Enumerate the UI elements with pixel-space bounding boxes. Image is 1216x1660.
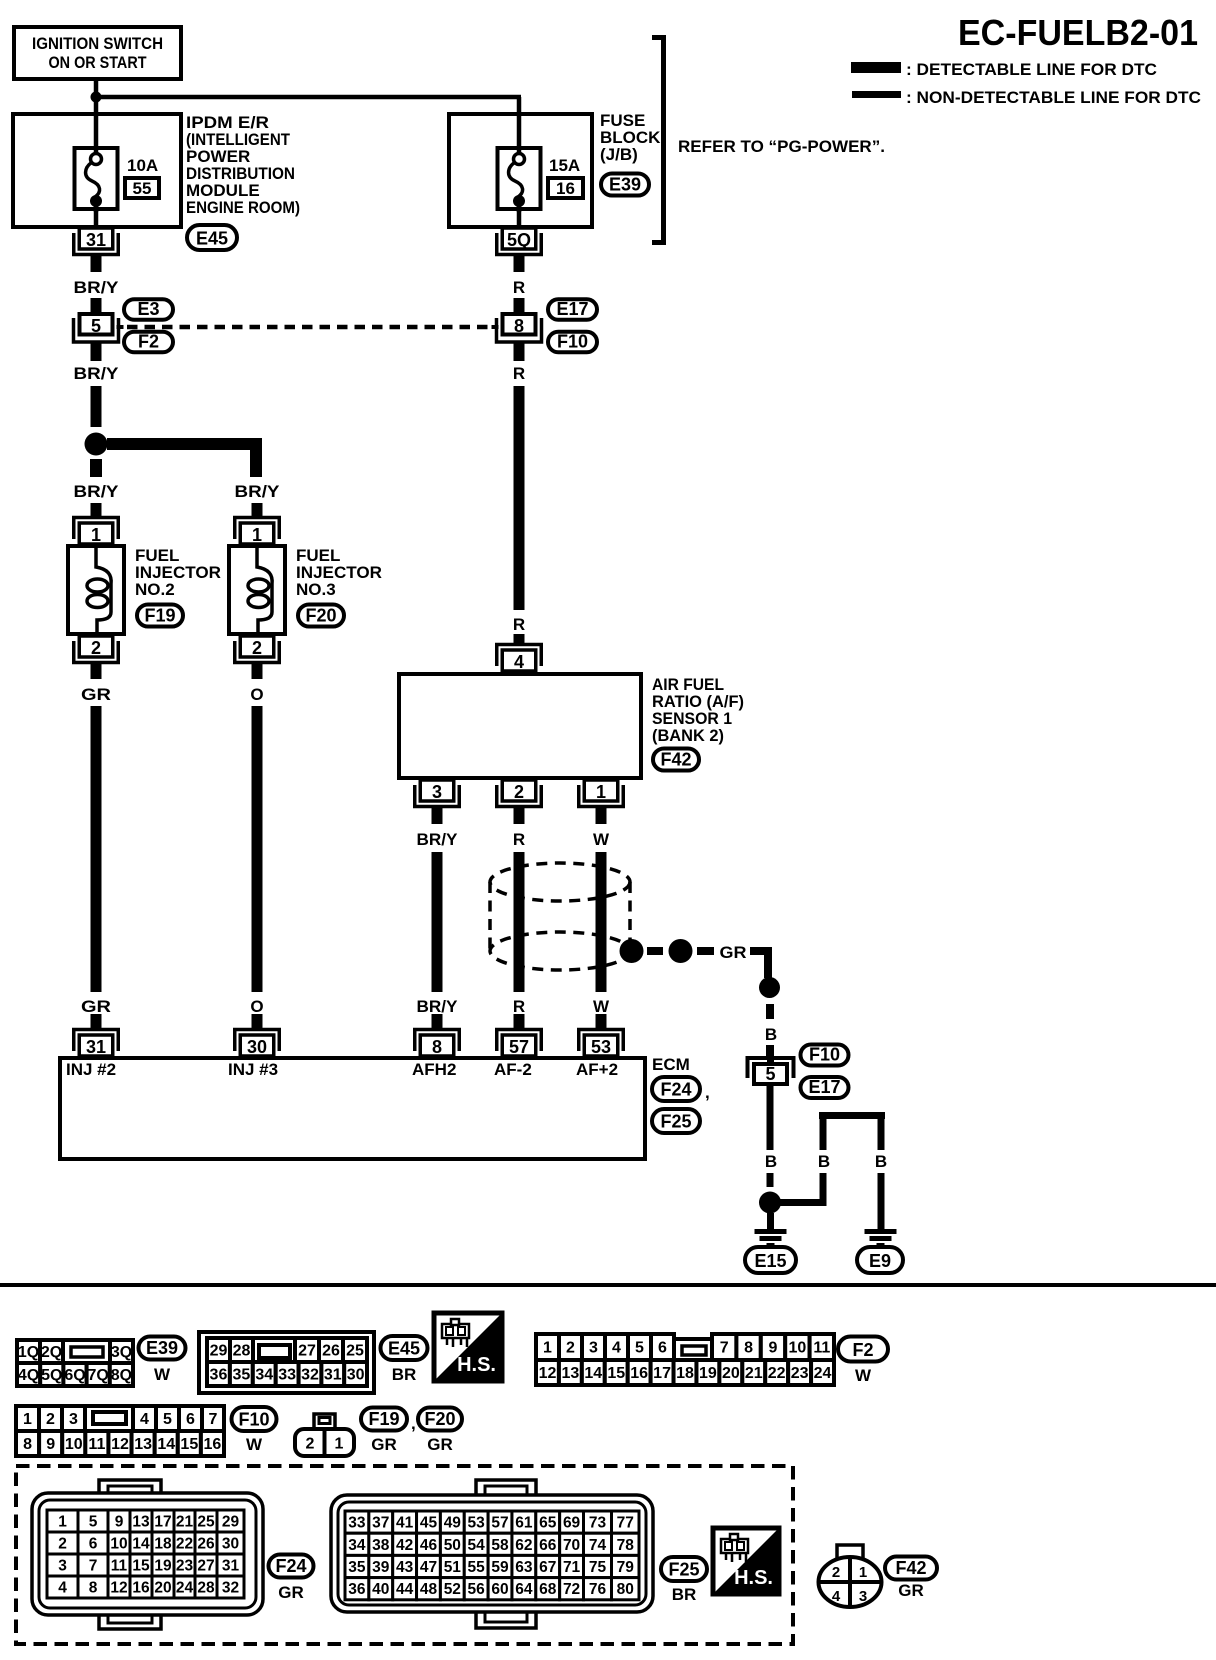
junction dot injector branch xyxy=(85,433,108,456)
wire junction to IPDM xyxy=(94,97,99,146)
wire BR/Y sensor to ECM xyxy=(432,852,443,992)
svg-text:6: 6 xyxy=(89,1536,98,1553)
svg-text:59: 59 xyxy=(491,1559,509,1576)
svg-text:30: 30 xyxy=(347,1367,365,1384)
svg-text:E15: E15 xyxy=(754,1251,786,1271)
svg-text:GR: GR xyxy=(720,943,747,962)
fuse 10A xyxy=(75,146,118,212)
pin 31 IPDM xyxy=(74,228,119,255)
connector ref E17 xyxy=(548,299,597,320)
label 55 box xyxy=(125,178,159,198)
connector ref F42 bottom xyxy=(885,1557,937,1580)
wire stub ECM pin 53 xyxy=(596,1014,607,1030)
svg-text:27: 27 xyxy=(298,1343,316,1360)
svg-text:B: B xyxy=(875,1152,887,1171)
connector ref F19 bottom xyxy=(361,1408,416,1434)
svg-text:BR/Y: BR/Y xyxy=(74,364,120,383)
svg-text:F20: F20 xyxy=(424,1409,455,1429)
svg-text:20: 20 xyxy=(722,1365,740,1382)
svg-text:1: 1 xyxy=(252,525,262,545)
ignition switch box xyxy=(14,27,181,79)
svg-text:BR/Y: BR/Y xyxy=(74,278,120,297)
ground symbol E9 xyxy=(865,1229,897,1248)
wire W sensor to ECM xyxy=(596,852,607,992)
connector E45 box xyxy=(199,1332,374,1393)
svg-text:30: 30 xyxy=(247,1037,267,1057)
svg-text:25: 25 xyxy=(346,1343,364,1360)
svg-text:F10: F10 xyxy=(809,1045,840,1065)
svg-text:3: 3 xyxy=(69,1411,78,1428)
wire pin5Q stub xyxy=(514,255,525,272)
svg-text:4: 4 xyxy=(514,652,524,672)
svg-text:F10: F10 xyxy=(557,332,588,352)
wire stub ECM pin 30 xyxy=(252,1014,263,1030)
svg-text:BR: BR xyxy=(392,1365,417,1384)
svg-text:NO.2: NO.2 xyxy=(135,580,175,599)
connector F24 grid xyxy=(47,1510,244,1598)
svg-text:2: 2 xyxy=(514,782,524,802)
svg-text:ECM: ECM xyxy=(652,1055,690,1074)
wire stub to sensor pin 4 xyxy=(514,634,525,645)
fuse 15A xyxy=(498,146,541,212)
svg-text:BR/Y: BR/Y xyxy=(417,830,459,849)
svg-text:13: 13 xyxy=(132,1514,150,1531)
svg-text:7: 7 xyxy=(89,1558,98,1575)
connector ref E39 bottom xyxy=(139,1337,186,1360)
svg-text:39: 39 xyxy=(372,1559,390,1576)
svg-text:8: 8 xyxy=(23,1436,32,1453)
svg-text:49: 49 xyxy=(444,1515,462,1532)
svg-text:5: 5 xyxy=(163,1411,172,1428)
svg-text:19: 19 xyxy=(699,1365,717,1382)
svg-text:15: 15 xyxy=(132,1558,150,1575)
svg-text:AF+2: AF+2 xyxy=(576,1060,618,1079)
svg-text:65: 65 xyxy=(539,1515,557,1532)
svg-text:69: 69 xyxy=(563,1515,581,1532)
svg-text:E45: E45 xyxy=(388,1338,420,1358)
svg-text:31: 31 xyxy=(86,230,106,250)
svg-text:22: 22 xyxy=(768,1365,786,1382)
pin 1 injector F20 xyxy=(235,518,280,546)
svg-text:31: 31 xyxy=(324,1367,342,1384)
svg-text:32: 32 xyxy=(222,1580,239,1597)
svg-text:9: 9 xyxy=(115,1514,124,1531)
svg-text:2: 2 xyxy=(46,1411,55,1428)
wire fuse to pin 31 xyxy=(94,211,99,227)
svg-text:31: 31 xyxy=(222,1558,240,1575)
svg-text:8: 8 xyxy=(744,1340,753,1357)
svg-text:: DETECTABLE LINE FOR DTC: : DETECTABLE LINE FOR DTC xyxy=(906,60,1157,79)
svg-text:F10: F10 xyxy=(238,1409,269,1429)
svg-text:15A: 15A xyxy=(549,156,580,175)
svg-text:2: 2 xyxy=(58,1536,67,1553)
connector ref F20 xyxy=(298,605,344,627)
connector ref F25 main xyxy=(652,1109,700,1133)
svg-text:ENGINE ROOM): ENGINE ROOM) xyxy=(186,198,300,217)
shield around sensor wires xyxy=(490,863,630,970)
svg-text:(J/B): (J/B) xyxy=(600,145,638,164)
svg-text:GR: GR xyxy=(278,1583,304,1602)
wire B middle leg to dot xyxy=(780,1173,827,1206)
svg-text:NO.3: NO.3 xyxy=(296,580,336,599)
connector F24 body xyxy=(32,1480,263,1629)
wire to junction xyxy=(91,386,102,427)
svg-text:27: 27 xyxy=(197,1558,214,1575)
svg-text:57: 57 xyxy=(509,1037,529,1057)
fuel injector FUEL INJECTOR NO.2 F19 xyxy=(68,546,124,634)
svg-text:7Q: 7Q xyxy=(88,1367,109,1384)
svg-text:36: 36 xyxy=(348,1581,366,1598)
wire below connector 5 xyxy=(91,343,102,361)
svg-text:51: 51 xyxy=(444,1559,462,1576)
svg-text:9: 9 xyxy=(46,1436,55,1453)
svg-text:2: 2 xyxy=(306,1436,315,1453)
connector 5 E3/F2 xyxy=(74,314,124,342)
legend non-detectable line xyxy=(852,88,1201,107)
wire B right leg to ground xyxy=(878,1173,885,1231)
svg-text:,: , xyxy=(705,1083,710,1102)
svg-text:36: 36 xyxy=(210,1367,228,1384)
svg-text:47: 47 xyxy=(420,1559,437,1576)
svg-text:23: 23 xyxy=(176,1558,194,1575)
label AIR FUEL RATIO sensor xyxy=(652,675,744,745)
svg-text:66: 66 xyxy=(539,1537,557,1554)
wire stub below injector F20 xyxy=(252,661,263,679)
connector F2 grid xyxy=(536,1334,674,1360)
svg-text:17: 17 xyxy=(154,1514,171,1531)
svg-text:44: 44 xyxy=(396,1581,414,1598)
svg-text:25: 25 xyxy=(197,1514,215,1531)
wire dash to GR label xyxy=(697,947,714,955)
ground symbol E15 xyxy=(755,1229,787,1248)
svg-text:F42: F42 xyxy=(660,749,691,769)
ECM box F24/F25 xyxy=(60,1058,645,1159)
svg-text:(BANK 2): (BANK 2) xyxy=(652,726,724,745)
svg-text:1: 1 xyxy=(23,1411,32,1428)
svg-text:76: 76 xyxy=(589,1581,607,1598)
svg-text:E39: E39 xyxy=(146,1338,178,1358)
wire injector F19 to ECM xyxy=(91,706,102,992)
connector F19/F20 2-pin xyxy=(295,1414,354,1456)
svg-text:BR/Y: BR/Y xyxy=(417,997,459,1016)
wire below connector 5 lower xyxy=(767,1086,774,1150)
svg-text:EC-FUELB2-01: EC-FUELB2-01 xyxy=(958,12,1198,53)
svg-text:F2: F2 xyxy=(138,332,159,352)
title EC-FUELB2-01 xyxy=(958,12,1198,53)
wire dash to ground dot xyxy=(767,1173,774,1187)
pin 30 ECM xyxy=(235,1030,280,1058)
svg-text:1: 1 xyxy=(859,1564,867,1581)
svg-text:4Q: 4Q xyxy=(18,1367,39,1384)
pin 4 A/F sensor xyxy=(497,645,542,673)
svg-text:80: 80 xyxy=(617,1581,634,1598)
pin 2 A/F sensor xyxy=(497,780,542,807)
svg-text:B: B xyxy=(765,1025,777,1044)
connector ref E15 xyxy=(745,1247,796,1273)
wire stub ECM pin 8 xyxy=(432,1014,443,1030)
wire stub to ground E15 xyxy=(767,1213,774,1229)
connector ref F2 bottom xyxy=(838,1337,888,1362)
svg-text:60: 60 xyxy=(491,1581,508,1598)
svg-text:24: 24 xyxy=(814,1365,832,1382)
wire R sensor to ECM xyxy=(514,852,525,992)
svg-text:,: , xyxy=(411,1414,416,1433)
svg-text:F19: F19 xyxy=(368,1409,399,1429)
svg-text:67: 67 xyxy=(539,1559,556,1576)
view icon H.S. top xyxy=(434,1313,502,1381)
svg-text:17: 17 xyxy=(653,1365,671,1382)
label FUEL INJECTOR NO.3 xyxy=(296,546,382,599)
svg-text:4: 4 xyxy=(832,1588,841,1605)
svg-text:F24: F24 xyxy=(275,1556,306,1576)
svg-text:AF-2: AF-2 xyxy=(494,1060,532,1079)
svg-text:ON OR START: ON OR START xyxy=(49,53,148,72)
svg-text:30: 30 xyxy=(222,1536,239,1553)
wire fuse to pin 5Q xyxy=(517,211,522,227)
svg-text:70: 70 xyxy=(563,1537,580,1554)
svg-text:BR: BR xyxy=(672,1585,697,1604)
dashed harness link 5 to 8 xyxy=(127,325,490,330)
svg-text:B: B xyxy=(765,1152,777,1171)
svg-text:3: 3 xyxy=(589,1340,598,1357)
svg-text:GR: GR xyxy=(81,997,111,1016)
svg-text:54: 54 xyxy=(468,1537,486,1554)
svg-text:1: 1 xyxy=(543,1340,552,1357)
svg-text:57: 57 xyxy=(491,1515,508,1532)
junction dot shield drain 1 xyxy=(620,939,644,963)
svg-text:28: 28 xyxy=(197,1580,215,1597)
fuel injector FUEL INJECTOR NO.3 F20 xyxy=(229,546,285,634)
svg-text:10: 10 xyxy=(65,1436,83,1453)
svg-text:H.S.: H.S. xyxy=(734,1567,773,1589)
svg-text:5Q: 5Q xyxy=(507,230,531,250)
svg-text:E17: E17 xyxy=(556,299,588,319)
wire to connector E3/F2 xyxy=(91,298,102,312)
svg-text:5: 5 xyxy=(635,1340,644,1357)
svg-text:11: 11 xyxy=(111,1558,128,1575)
svg-text:40: 40 xyxy=(372,1581,389,1598)
svg-text:8Q: 8Q xyxy=(111,1367,132,1384)
connector ref E3 xyxy=(124,299,173,320)
svg-text:26: 26 xyxy=(197,1536,215,1553)
wire stub to injector F19 pin 1 xyxy=(91,503,102,519)
svg-text:INJ #3: INJ #3 xyxy=(228,1060,278,1079)
svg-text:4: 4 xyxy=(612,1340,621,1357)
pin 31 ECM xyxy=(74,1030,119,1058)
svg-text:O: O xyxy=(250,685,263,704)
svg-text:3: 3 xyxy=(432,782,442,802)
pin 8 ECM xyxy=(415,1030,460,1058)
wire stub to injector F20 pin 1 xyxy=(252,503,263,519)
connector ref F24 main xyxy=(652,1077,710,1102)
svg-text:35: 35 xyxy=(232,1367,250,1384)
svg-text:IGNITION SWITCH: IGNITION SWITCH xyxy=(32,34,163,53)
svg-text:F20: F20 xyxy=(305,605,336,625)
svg-text:63: 63 xyxy=(515,1559,533,1576)
svg-text:5Q: 5Q xyxy=(41,1367,62,1384)
svg-text:BR/Y: BR/Y xyxy=(74,482,120,501)
svg-text:W: W xyxy=(593,997,610,1016)
pin 3 A/F sensor xyxy=(415,780,460,807)
svg-text:78: 78 xyxy=(617,1537,635,1554)
svg-text:REFER TO “PG-POWER”.: REFER TO “PG-POWER”. xyxy=(678,137,885,156)
svg-text:E17: E17 xyxy=(808,1077,840,1097)
svg-text:14: 14 xyxy=(584,1365,602,1382)
svg-text:16: 16 xyxy=(630,1365,648,1382)
wire long R run xyxy=(514,386,525,610)
connector ref F19 xyxy=(137,605,183,627)
svg-text:2: 2 xyxy=(832,1564,840,1581)
svg-text:BR/Y: BR/Y xyxy=(235,482,281,501)
svg-text:14: 14 xyxy=(157,1436,175,1453)
svg-text:21: 21 xyxy=(176,1514,194,1531)
svg-text:16: 16 xyxy=(132,1580,150,1597)
junction dot ignition feed xyxy=(91,92,102,103)
wire stub below injector F19 xyxy=(91,661,102,679)
svg-text:50: 50 xyxy=(444,1537,461,1554)
svg-text:3: 3 xyxy=(859,1588,867,1605)
wire dash above connector 5 xyxy=(766,1045,774,1056)
svg-text:15: 15 xyxy=(607,1365,625,1382)
svg-text:W: W xyxy=(855,1366,872,1385)
svg-text:W: W xyxy=(154,1365,171,1384)
svg-text:R: R xyxy=(513,830,525,849)
pin 57 ECM xyxy=(497,1030,542,1058)
wire pin31 stub xyxy=(91,255,102,272)
connector F25 grid xyxy=(345,1511,639,1600)
label 16 box xyxy=(548,178,583,198)
svg-text:32: 32 xyxy=(301,1367,319,1384)
wire sensor stub W xyxy=(596,807,607,824)
svg-text:72: 72 xyxy=(563,1581,580,1598)
connector ref F2 xyxy=(124,332,173,353)
legend detectable line xyxy=(851,60,1157,79)
svg-text:13: 13 xyxy=(134,1436,152,1453)
air fuel ratio sensor box F42 xyxy=(399,674,641,778)
pin 2 injector F20 xyxy=(235,636,280,663)
svg-text:33: 33 xyxy=(348,1515,366,1532)
wire branch to injector No.3 xyxy=(107,438,262,477)
svg-text:56: 56 xyxy=(468,1581,486,1598)
junction dot B drop xyxy=(759,977,780,998)
wire sensor stub BR/Y xyxy=(432,807,443,824)
wire dash below junction xyxy=(90,459,102,477)
svg-text:26: 26 xyxy=(322,1343,340,1360)
svg-text:R: R xyxy=(513,615,525,634)
svg-text:5: 5 xyxy=(765,1064,775,1084)
svg-text:W: W xyxy=(246,1435,263,1454)
svg-text:28: 28 xyxy=(233,1343,251,1360)
svg-text:1: 1 xyxy=(91,525,101,545)
svg-text:48: 48 xyxy=(420,1581,438,1598)
svg-text:16: 16 xyxy=(204,1436,222,1453)
pin 5Q fuse block xyxy=(497,228,542,255)
key area F2 xyxy=(674,1339,712,1360)
connector ref F10 bottom xyxy=(232,1407,277,1431)
svg-text:6: 6 xyxy=(186,1411,195,1428)
svg-text:GR: GR xyxy=(898,1581,924,1600)
svg-text:29: 29 xyxy=(222,1514,240,1531)
svg-text:38: 38 xyxy=(372,1537,390,1554)
svg-text:F42: F42 xyxy=(895,1558,926,1578)
svg-text:41: 41 xyxy=(396,1515,414,1532)
svg-text:7: 7 xyxy=(209,1411,218,1428)
svg-text:14: 14 xyxy=(132,1536,150,1553)
svg-text:1Q: 1Q xyxy=(18,1344,39,1361)
svg-text:2: 2 xyxy=(91,638,101,658)
svg-text:43: 43 xyxy=(396,1559,414,1576)
svg-text:10: 10 xyxy=(789,1340,807,1357)
connector ref E17 lower xyxy=(801,1077,849,1098)
svg-text:22: 22 xyxy=(176,1536,193,1553)
label FUEL INJECTOR NO.2 xyxy=(135,546,221,599)
svg-text:F24: F24 xyxy=(660,1079,691,1099)
wire junction to fuse block xyxy=(96,95,521,114)
svg-text:F19: F19 xyxy=(144,605,175,625)
connector ref F10 xyxy=(548,332,597,353)
connector 5 F10/E17 xyxy=(748,1054,794,1084)
svg-text:75: 75 xyxy=(589,1559,607,1576)
junction dot shield drain 2 xyxy=(669,939,693,963)
svg-text:2: 2 xyxy=(252,638,262,658)
svg-text:58: 58 xyxy=(491,1537,509,1554)
svg-text:53: 53 xyxy=(591,1037,611,1057)
svg-text:4: 4 xyxy=(140,1411,149,1428)
connector ref E45 xyxy=(187,225,237,250)
svg-text:18: 18 xyxy=(676,1365,694,1382)
svg-text:61: 61 xyxy=(515,1515,533,1532)
svg-text:64: 64 xyxy=(515,1581,533,1598)
svg-text:GR: GR xyxy=(371,1435,397,1454)
svg-text:AFH2: AFH2 xyxy=(412,1060,456,1079)
wire stub ECM pin 31 xyxy=(91,1014,102,1030)
svg-text:71: 71 xyxy=(563,1559,581,1576)
connector E39 grid xyxy=(17,1340,133,1363)
svg-text:53: 53 xyxy=(468,1515,486,1532)
svg-text:77: 77 xyxy=(617,1515,634,1532)
connector ref F20 bottom xyxy=(418,1408,462,1431)
svg-text:62: 62 xyxy=(515,1537,532,1554)
wire ignition to junction xyxy=(94,79,99,97)
svg-text:12: 12 xyxy=(111,1436,129,1453)
svg-text:20: 20 xyxy=(154,1580,171,1597)
svg-text:19: 19 xyxy=(154,1558,172,1575)
svg-text:5: 5 xyxy=(91,316,101,336)
connector F25 body xyxy=(331,1480,653,1628)
svg-text:11: 11 xyxy=(813,1340,830,1357)
key slot F10 xyxy=(93,1412,126,1424)
svg-text:1: 1 xyxy=(596,782,606,802)
svg-text:37: 37 xyxy=(372,1515,389,1532)
svg-text:16: 16 xyxy=(556,179,575,198)
svg-text:1: 1 xyxy=(335,1436,344,1453)
wire injector F20 to ECM xyxy=(252,706,263,992)
key slot E39 xyxy=(71,1347,103,1357)
svg-text:34: 34 xyxy=(255,1367,273,1384)
svg-text:55: 55 xyxy=(468,1559,486,1576)
separator line xyxy=(0,1283,1216,1287)
svg-text:6Q: 6Q xyxy=(64,1367,85,1384)
svg-text:10A: 10A xyxy=(127,156,158,175)
svg-text:12: 12 xyxy=(539,1365,557,1382)
svg-text:52: 52 xyxy=(444,1581,461,1598)
wire below connector 8 xyxy=(514,343,525,361)
pin 53 ECM xyxy=(579,1030,624,1058)
svg-text:21: 21 xyxy=(745,1365,763,1382)
key slot E45 xyxy=(259,1345,290,1358)
pin 1 injector F19 xyxy=(74,518,119,546)
svg-text:33: 33 xyxy=(278,1367,296,1384)
